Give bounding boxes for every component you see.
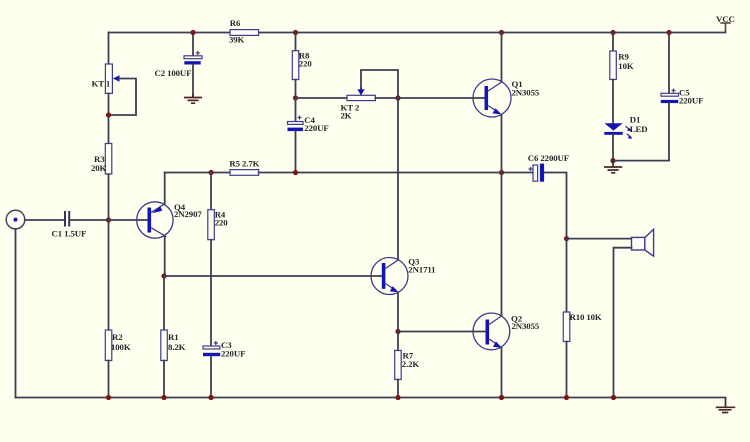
wire R8 node to C4 <box>295 98 297 122</box>
wire C2 column <box>192 33 194 56</box>
node junction C5 top <box>666 30 671 35</box>
capacitor C5 <box>661 87 704 105</box>
node junction Q3 emitter <box>395 329 400 334</box>
wire C1 to Q4 base <box>70 219 147 221</box>
wire LED to ground node <box>612 135 614 161</box>
svg-text:C1 1.5UF: C1 1.5UF <box>52 229 87 239</box>
capacitor C6 <box>528 153 569 182</box>
wire top rail VCC <box>109 32 726 34</box>
transistor Q3 2N1711 <box>371 257 435 295</box>
wire Q3 node to R7 <box>397 332 399 351</box>
node junction bottom R2 <box>106 395 111 400</box>
wire Q4 emitter up to mid rail <box>164 173 166 205</box>
wire KT2 wiper loop <box>361 70 398 98</box>
node junction KT1 wiper <box>106 112 111 117</box>
resistor R6 <box>229 18 259 44</box>
node junction R8 bottom <box>293 95 298 100</box>
wire C5 to LED node row <box>668 103 670 161</box>
svg-text:220: 220 <box>215 217 229 227</box>
svg-text:2.2K: 2.2K <box>402 359 420 369</box>
svg-text:2N2907: 2N2907 <box>174 209 202 219</box>
wire rail to R8 <box>295 33 297 51</box>
wire mid rail right segment <box>259 172 533 174</box>
node junction R9 top <box>610 30 615 35</box>
wire KT2 to Q1 base <box>375 97 484 99</box>
svg-text:LED: LED <box>630 124 648 134</box>
speaker LS1 <box>632 229 654 256</box>
wire Q2 emitter to bottom rail <box>501 348 503 398</box>
wire KT1 to R3 <box>108 93 110 143</box>
wire R10 column <box>566 239 568 312</box>
svg-text:R6: R6 <box>230 18 241 28</box>
wire C2 to ground <box>192 65 194 97</box>
resistor R5 <box>229 159 259 176</box>
ground below LED <box>604 161 622 173</box>
svg-text:2N1711: 2N1711 <box>408 265 435 275</box>
wire input down to bottom rail <box>15 229 17 398</box>
resistor R2 <box>105 330 131 361</box>
node junction bottom R7 <box>395 395 400 400</box>
wire R4 column top <box>210 173 212 210</box>
transistor Q2 2N3055 <box>473 313 540 350</box>
wire rail to R9 <box>612 33 614 52</box>
svg-text:2K: 2K <box>341 111 352 121</box>
wire left column top (rail to KT1) <box>108 33 110 65</box>
node junction bottom R1 <box>161 395 166 400</box>
wire R4 to C3 <box>210 240 212 346</box>
resistor R7 <box>395 351 420 380</box>
svg-text:C2 100UF: C2 100UF <box>155 68 192 78</box>
capacitor C2 <box>155 51 203 78</box>
input connector J1 <box>6 210 25 229</box>
node junction bottom C3 <box>208 395 213 400</box>
resistor R1 <box>161 330 186 361</box>
svg-text:220UF: 220UF <box>221 349 245 359</box>
svg-text:R2: R2 <box>112 332 123 342</box>
node junction bottom Q2 <box>499 395 504 400</box>
wire Q4 collector down <box>164 237 166 277</box>
wire R8 to KT2 row <box>295 80 297 98</box>
svg-text:220: 220 <box>299 58 313 68</box>
node junction LED bottom <box>610 158 615 163</box>
wire Q2 collector up to output node <box>501 173 503 316</box>
wire R9 to LED <box>612 80 614 124</box>
svg-text:10K: 10K <box>618 61 634 71</box>
wire Q4 collector to Q3 base <box>164 275 382 277</box>
wire speaker node to speaker <box>567 238 632 240</box>
svg-text:20K: 20K <box>91 163 107 173</box>
node junction Q4 collector <box>161 273 166 278</box>
wire R2 to bottom rail <box>108 361 110 398</box>
capacitor C1 <box>52 211 87 239</box>
node junction C2 top <box>190 30 195 35</box>
wire C3 to bottom rail <box>210 356 212 397</box>
node junction R4 top <box>208 170 213 175</box>
wire Q1 emitter to output node <box>501 115 503 173</box>
transistor Q1 2N3055 <box>473 79 540 117</box>
wire bottom rail <box>16 397 726 399</box>
svg-text:R1: R1 <box>168 332 179 342</box>
svg-text:C6 2200UF: C6 2200UF <box>528 153 569 163</box>
wire KT1 wiper return <box>109 79 137 116</box>
node junction bottom R10 <box>564 395 569 400</box>
svg-text:220UF: 220UF <box>304 123 328 133</box>
wire C6 to speaker node <box>544 173 566 239</box>
wire Q1 collector <box>501 33 503 82</box>
node junction input row <box>106 217 111 222</box>
node junction speaker node <box>564 236 569 241</box>
svg-text:39K: 39K <box>229 34 245 44</box>
svg-text:100K: 100K <box>111 342 131 352</box>
wire R1 to bottom rail <box>163 361 165 398</box>
wire Q3 emitter down <box>397 293 399 332</box>
wire R7 to bottom rail <box>397 380 399 398</box>
svg-text:220UF: 220UF <box>679 95 703 105</box>
wire rail to C5 <box>668 33 670 94</box>
ground below C2 <box>184 94 202 103</box>
node junction C4 bottom <box>293 170 298 175</box>
resistor R9 <box>610 51 634 80</box>
capacitor C3 <box>203 340 245 358</box>
wire KT2 row left <box>296 97 348 99</box>
svg-text:2N3055: 2N3055 <box>512 321 540 331</box>
wire LED node to C5 bottom <box>613 160 669 162</box>
svg-text:VCC: VCC <box>716 14 735 24</box>
VCC power symbol <box>716 14 735 33</box>
wire Q3 emitter to Q2 base <box>398 331 486 333</box>
svg-text:R5 2.7K: R5 2.7K <box>229 159 259 169</box>
wire R3 to input row and down to R2 <box>108 174 110 330</box>
wire speaker return <box>614 248 632 398</box>
svg-text:8.2K: 8.2K <box>168 342 186 352</box>
resistor R4 <box>208 210 228 240</box>
wire R10 to bottom rail <box>566 342 568 398</box>
transistor Q4 2N2907 <box>137 202 203 238</box>
potentiometer KT1 <box>92 64 120 93</box>
svg-text:R9: R9 <box>618 52 629 62</box>
diode D1 LED <box>604 115 647 139</box>
wire C4 to mid rail <box>295 131 297 172</box>
node junction bottom speaker <box>611 395 616 400</box>
node junction output node <box>499 170 504 175</box>
resistor R10 <box>563 312 602 342</box>
node junction R8 top <box>293 30 298 35</box>
resistor R8 <box>292 51 312 80</box>
svg-text:KT 1: KT 1 <box>92 79 111 89</box>
node junction KT2 wiper <box>395 95 400 100</box>
node junction Q1 collector top <box>499 30 504 35</box>
wire input to C1 <box>25 219 64 221</box>
wire Q4 collector node down to R1 <box>163 276 165 330</box>
ground bottom right <box>716 398 735 413</box>
wire mid rail left segment <box>165 172 230 174</box>
svg-text:2N3055: 2N3055 <box>512 87 540 97</box>
capacitor C4 <box>288 115 329 133</box>
svg-text:R10 10K: R10 10K <box>570 312 602 322</box>
wire Q3 collector up to KT2 node <box>397 98 399 260</box>
potentiometer KT2 <box>341 87 376 121</box>
resistor R3 <box>91 144 112 175</box>
